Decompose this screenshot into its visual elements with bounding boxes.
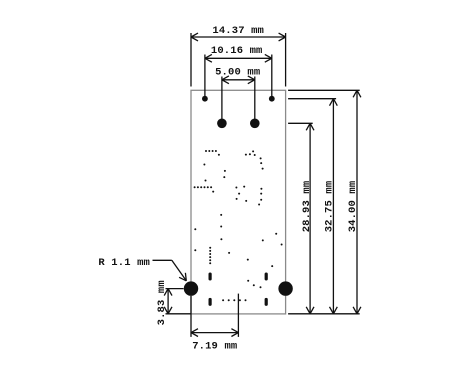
dimension 3.83 mm <box>156 280 191 325</box>
via dots <box>194 150 283 301</box>
dimension 14.37 mm <box>191 25 286 86</box>
label R 1.1 mm leader <box>98 257 186 281</box>
pad inner-right large <box>250 119 260 129</box>
pad inner-left large <box>217 119 227 129</box>
pad top-right small <box>269 96 275 102</box>
svg-text:14.37 mm: 14.37 mm <box>212 25 264 37</box>
svg-text:34.00 mm: 34.00 mm <box>347 181 359 233</box>
dimension 5.00 mm <box>215 67 260 124</box>
mounting hole left R1.1 <box>184 281 198 295</box>
slot bottom-right <box>265 298 268 306</box>
pad top-left small <box>202 96 208 102</box>
board outline <box>191 90 286 314</box>
svg-text:3.83 mm: 3.83 mm <box>156 280 168 325</box>
dimension 28.93 mm <box>288 123 314 313</box>
svg-text:10.16 mm: 10.16 mm <box>211 45 263 57</box>
dimension 32.75 mm <box>288 99 337 314</box>
svg-text:32.75 mm: 32.75 mm <box>324 181 336 233</box>
svg-text:28.93 mm: 28.93 mm <box>301 181 313 233</box>
mounting hole right R1.1 <box>278 281 292 295</box>
svg-text:5.00 mm: 5.00 mm <box>215 67 260 79</box>
slot bottom-left <box>209 298 212 306</box>
slot top-right <box>265 273 268 281</box>
dimension 10.16 mm <box>205 45 272 99</box>
slot top-left <box>209 273 212 281</box>
dimension 34.00 mm <box>288 90 361 313</box>
dimension 7.19 mm <box>191 294 238 353</box>
svg-text:R 1.1 mm: R 1.1 mm <box>98 257 150 269</box>
svg-text:7.19 mm: 7.19 mm <box>192 340 237 352</box>
